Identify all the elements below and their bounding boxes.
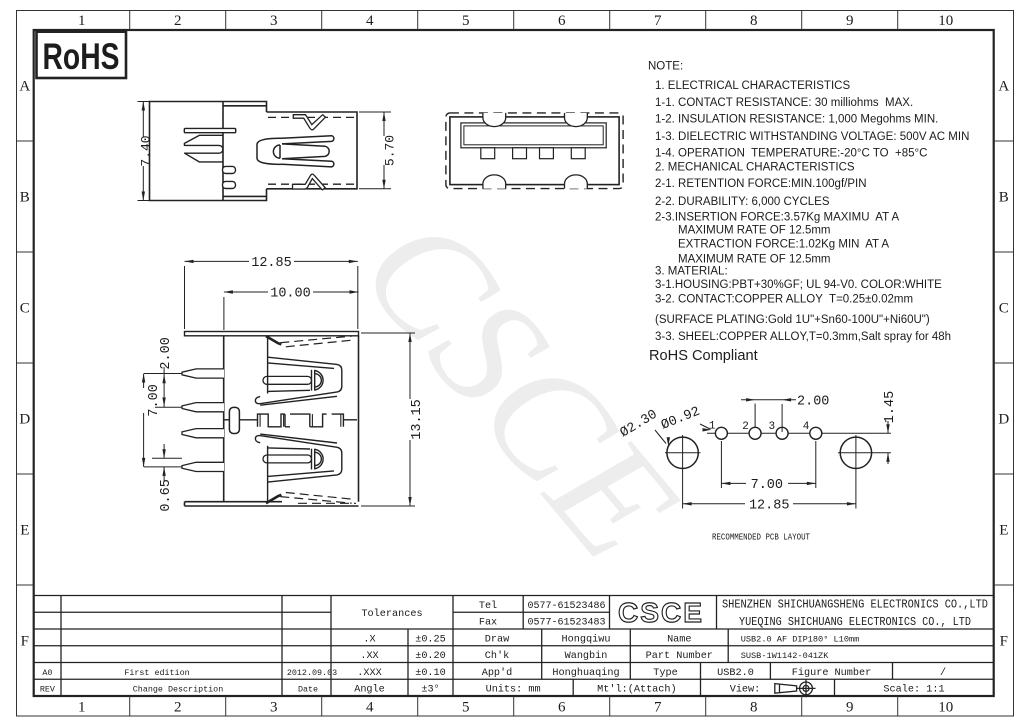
RoHS logo box [37,32,127,78]
svg-text:Part Number: Part Number [646,650,713,662]
svg-text:9: 9 [846,700,854,716]
svg-text:2: 2 [174,700,182,716]
svg-text:2.00: 2.00 [797,395,829,410]
svg-text:Ch'k: Ch'k [485,650,509,662]
svg-text:Draw: Draw [485,634,510,645]
svg-text:1-4. OPERATION TEMPERATURE:-2: 1-4. OPERATION TEMPERATURE:-20°C TO +85°… [655,148,927,160]
svg-text:2-3.INSERTION FORCE:3.57Kg MAX: 2-3.INSERTION FORCE:3.57Kg MAXIMU AT A [655,211,899,223]
bottom view: bottom flange [185,505,359,507]
svg-text:0.65: 0.65 [159,479,174,511]
svg-text:C: C [20,301,30,317]
svg-text:Change Description: Change Description [133,685,223,695]
svg-text:F: F [1000,634,1008,650]
svg-text:B: B [999,190,1009,206]
bottom view: center retainer [229,407,239,433]
svg-text:View:: View: [730,684,761,696]
svg-text:4: 4 [366,13,374,29]
svg-text:SUSB-1W1142-041ZK: SUSB-1W1142-041ZK [741,651,830,661]
side view: solder tail strip top [184,128,235,132]
svg-text:Wangbin: Wangbin [565,650,608,662]
svg-text:RECOMMENDED PCB LAYOUT: RECOMMENDED PCB LAYOUT [712,532,810,543]
svg-text:9: 9 [846,13,854,29]
grid column ticks [130,11,898,717]
PCB dimension 7.00 [721,441,815,488]
dimension 5.70 (shell height) [359,112,391,189]
front view: latch tabs [483,113,506,127]
svg-text:1.45: 1.45 [883,391,898,423]
svg-text:E: E [999,523,1008,539]
svg-text:7.40: 7.40 [139,135,154,166]
svg-text:10: 10 [938,13,953,29]
svg-text:.XXX: .XXX [357,668,381,679]
svg-text:3: 3 [768,421,775,433]
svg-text:C: C [999,301,1009,317]
svg-text:First edition: First edition [124,668,189,678]
svg-text:App'd: App'd [482,667,513,679]
svg-text:±0.10: ±0.10 [415,668,446,679]
svg-text:USB2.0 AF DIP180° L10mm: USB2.0 AF DIP180° L10mm [741,634,860,644]
dimension 10.00 (body width) [224,292,359,330]
svg-text:12.85: 12.85 [749,498,790,513]
svg-text:F: F [21,634,29,650]
svg-text:Tel: Tel [479,600,497,612]
svg-text:1: 1 [78,700,86,716]
front view: tongue [461,123,606,148]
svg-text:MAXIMUM RATE OF 12.5mm: MAXIMUM RATE OF 12.5mm [678,225,831,237]
svg-text:Tolerances: Tolerances [361,608,422,620]
svg-text:Scale: 1:1: Scale: 1:1 [883,684,944,696]
svg-text:E: E [20,523,29,539]
side view: metal shell outline [267,112,358,189]
bottom view: center line and contact comb [224,414,357,427]
svg-text:10: 10 [938,700,953,716]
PCB dimension 12.85 [683,471,856,509]
bottom view: body outline [185,336,359,506]
svg-text:2.00: 2.00 [159,337,174,369]
svg-text:1-3. DIELECTRIC WITHSTANDING V: 1-3. DIELECTRIC WITHSTANDING VOLTAGE: 50… [655,131,969,143]
svg-text:B: B [20,190,30,206]
PCB layout: pad numbers [709,421,810,434]
front view: shell flange hidden outline (dashed) [446,113,623,189]
svg-text:(SURFACE PLATING:Gold 1U"+Sn60: (SURFACE PLATING:Gold 1U"+Sn60-100U"+Ni6… [655,314,930,326]
front view: contacts 1-4 [481,148,495,159]
svg-text:2-2. DURABILITY: 6,000 CYCLES: 2-2. DURABILITY: 6,000 CYCLES [655,196,830,208]
dimension 12.85 (flange width) [185,261,358,329]
PCB dimension 2.00 [741,400,796,432]
dimension 0.65 [152,444,182,481]
svg-text:1: 1 [709,421,716,433]
svg-text:7.00: 7.00 [751,478,783,493]
svg-text:1: 1 [78,13,86,29]
svg-text:8: 8 [750,700,758,716]
svg-text:5.70: 5.70 [383,135,398,166]
svg-text:REV: REV [40,685,55,695]
PCB layout: pad row center line [707,432,891,434]
svg-text:1-2. INSULATION RESISTANCE: 1,: 1-2. INSULATION RESISTANCE: 1,000 Megohm… [655,113,938,125]
svg-text:7: 7 [654,700,662,716]
svg-text:Angle: Angle [354,684,385,696]
bottom view: internal spring assembly (top) [255,336,352,405]
dimension 7.40 (side view height) [138,102,157,201]
side view: hidden shell edges (dashed) [268,117,355,184]
PCB layout: mounting hole right [840,437,871,468]
svg-text:2-1. RETENTION FORCE:MIN.100gf: 2-1. RETENTION FORCE:MIN.100gf/PIN [655,178,867,190]
svg-text:Type: Type [653,668,677,679]
PCB dimension 1.45 [887,421,889,464]
svg-text:6: 6 [558,700,566,716]
bottom view: top flange [185,332,359,336]
side view: mounting tabs [223,166,236,173]
svg-text:12.85: 12.85 [251,256,292,271]
svg-text:±0.20: ±0.20 [415,651,446,662]
side view: contact pin wedge [184,135,223,162]
svg-text:SHENZHEN SHICHUANGSHENG ELECTR: SHENZHEN SHICHUANGSHENG ELECTRONICS CO.,… [722,597,988,611]
svg-text:2. MECHANICAL CHARACTERISTICS: 2. MECHANICAL CHARACTERISTICS [655,162,855,174]
svg-text:/: / [940,667,946,679]
svg-text:NOTE:: NOTE: [648,61,683,73]
svg-text:4: 4 [366,700,374,716]
svg-text:6: 6 [558,13,566,29]
svg-text:0577-61523486: 0577-61523486 [527,601,605,612]
svg-text:7.00: 7.00 [147,384,162,416]
svg-text:13.15: 13.15 [410,399,425,440]
svg-text:10.00: 10.00 [270,287,311,302]
svg-text:3-1.HOUSING:PBT+30%GF; UL 94-V: 3-1.HOUSING:PBT+30%GF; UL 94-V0. COLOR:W… [655,279,942,291]
svg-text:YUEQING SHICHUANG ELECTRONICS: YUEQING SHICHUANG ELECTRONICS CO., LTD [739,615,971,629]
svg-text:4: 4 [803,421,810,433]
svg-text:Units: mm: Units: mm [486,684,541,696]
svg-text:EXTRACTION FORCE:1.02Kg MIN A: EXTRACTION FORCE:1.02Kg MIN AT A [678,239,889,251]
third-angle projection symbol [775,680,816,698]
svg-text:A: A [998,79,1009,95]
svg-text:Name: Name [667,634,691,645]
svg-text:Fax: Fax [479,618,497,629]
dimension 2.00 (pin pitch) [155,367,182,407]
grid row ticks [17,141,1014,585]
svg-text:3-2. CONTACT:COPPER ALLOY T=0: 3-2. CONTACT:COPPER ALLOY T=0.25±0.02mm [655,293,913,305]
side view: fork contact spring [257,136,334,167]
svg-text:Honghuaqing: Honghuaqing [552,667,619,679]
svg-text:Date: Date [298,685,318,695]
side view: connector housing outline [150,102,358,201]
svg-text:2012.09.03: 2012.09.03 [287,668,337,678]
PCB layout: mounting hole left [667,437,698,468]
svg-text:±3°: ±3° [421,684,439,696]
svg-text:D: D [19,412,30,428]
svg-text:1. ELECTRICAL CHARACTERISTICS: 1. ELECTRICAL CHARACTERISTICS [655,80,850,92]
svg-text:5: 5 [462,700,470,716]
svg-text:.X: .X [363,634,375,645]
svg-text:2: 2 [742,421,749,433]
svg-text:±0.25: ±0.25 [415,634,446,645]
PCB layout: pads 1-4 [715,427,727,439]
bottom view: pins 1-4 [182,369,224,378]
svg-text:2: 2 [174,13,182,29]
comb doubled edges [260,414,341,427]
notes text block [648,61,969,344]
svg-text:1-1. CONTACT RESISTANCE: 30 mi: 1-1. CONTACT RESISTANCE: 30 milliohms MA… [655,97,913,109]
svg-text:3-3. SHEEL:COPPER ALLOY,T=0.3m: 3-3. SHEEL:COPPER ALLOY,T=0.3mm,Salt spr… [655,331,951,343]
svg-text:RoHS Compliant: RoHS Compliant [649,348,758,364]
svg-text:Figure Number: Figure Number [792,667,871,679]
svg-text:8: 8 [750,13,758,29]
grid row letters [19,79,1009,650]
svg-text:D: D [998,412,1009,428]
side view: housing internal vertical edge [222,102,224,201]
front view: shell opening [450,117,619,185]
svg-text:Mt'l:(Attach): Mt'l:(Attach) [597,684,676,696]
svg-text:5: 5 [462,13,470,29]
svg-text:USB2.0: USB2.0 [717,668,754,679]
svg-text:7: 7 [654,13,662,29]
svg-text:.XX: .XX [360,651,378,662]
svg-text:Hongqiwu: Hongqiwu [562,633,611,645]
side view: top latch spring [293,115,325,130]
svg-text:CSCE: CSCE [618,597,704,628]
bottom view: hidden edge dashed (bottom) [298,502,356,504]
svg-text:0577-61523483: 0577-61523483 [527,618,605,629]
side view: bottom latch spring [293,174,326,190]
dimension 13.15 (overall height) [361,333,415,506]
title block grid [34,596,994,697]
svg-text:3: 3 [270,13,278,29]
side view: shell fold lines over housing [223,105,267,107]
svg-text:3. MATERIAL:: 3. MATERIAL: [655,265,728,277]
dimension 7.00 (pin span) [144,374,182,467]
bottom view: internal spring assembly (bottom, mirrored) [255,434,352,503]
svg-text:3: 3 [270,700,278,716]
svg-text:A0: A0 [42,668,52,678]
svg-text:MAXIMUM RATE OF 12.5mm: MAXIMUM RATE OF 12.5mm [678,253,831,265]
svg-text:RoHS: RoHS [43,36,120,77]
svg-text:A: A [19,79,30,95]
